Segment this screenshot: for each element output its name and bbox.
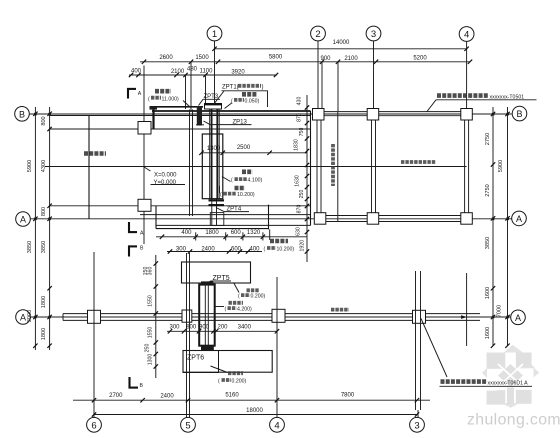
- svg-text:630: 630: [296, 227, 302, 236]
- svg-text:1630: 1630: [295, 175, 301, 187]
- label pile1 elevation: [225, 94, 260, 108]
- svg-text:3850: 3850: [485, 237, 491, 249]
- svg-text:7000: 7000: [497, 305, 503, 317]
- svg-text:5800: 5800: [269, 55, 283, 61]
- svg-text:750: 750: [299, 128, 305, 137]
- axis line B horizontal: [29, 113, 511, 115]
- svg-text:1600: 1600: [485, 327, 491, 339]
- annotation bottom right: [421, 319, 532, 387]
- right outer dim labels 5900 7000: [497, 160, 505, 317]
- label pile7 elevation: [216, 303, 252, 313]
- svg-text:600: 600: [231, 246, 242, 252]
- axis circle 3 top: [366, 26, 381, 110]
- svg-text:250: 250: [299, 190, 305, 199]
- lower-left dim chain: [154, 255, 158, 378]
- svg-text:1600: 1600: [485, 287, 491, 299]
- pile shaft upper: [210, 109, 220, 225]
- svg-text:4.200): 4.200): [237, 307, 252, 313]
- upper wing beam line y205.8: [50, 205, 311, 207]
- svg-text:(: (: [218, 379, 220, 385]
- axis circle 2 top: [311, 26, 326, 110]
- top edge step: [152, 106, 154, 129]
- pile cap top ZPT1: [204, 104, 222, 110]
- svg-text:5900: 5900: [498, 160, 504, 172]
- svg-text:1: 1: [212, 29, 217, 40]
- label ZPT4: [216, 207, 249, 213]
- svg-text:5: 5: [185, 420, 190, 431]
- axis line A' horizontal: [30, 316, 510, 318]
- ZPT4 footing bottom edge: [156, 228, 269, 230]
- seam line x340: [337, 112, 339, 222]
- svg-text:400: 400: [181, 230, 192, 236]
- svg-text:3: 3: [414, 420, 419, 431]
- axis 2 wing edge double: [317, 109, 321, 222]
- label X=0.000 Y=0.000: [144, 167, 185, 186]
- svg-text:2100: 2100: [344, 56, 358, 62]
- column squares right wing bottom row: [314, 213, 472, 225]
- svg-text:1550: 1550: [148, 327, 154, 339]
- axis circle A' right: [511, 310, 526, 325]
- svg-text:360: 360: [148, 267, 154, 276]
- svg-text:(: (: [231, 178, 233, 184]
- svg-text:870: 870: [297, 113, 303, 122]
- svg-text:A: A: [20, 215, 26, 225]
- svg-text:1320: 1320: [247, 230, 261, 236]
- beam label text: [331, 308, 349, 312]
- svg-text:2700: 2700: [109, 393, 123, 399]
- dim row lower wing 300 800 900 200 3400: [167, 324, 279, 333]
- upper wing bottom edge y222.3: [156, 224, 311, 226]
- label pile5 elevation: [264, 241, 295, 253]
- svg-text:2100: 2100: [171, 69, 185, 75]
- column squares A' beam: [88, 309, 426, 323]
- main axis P line: [45, 166, 467, 168]
- column square lower left wing: [138, 199, 151, 211]
- svg-text:zhulong.com: zhulong.com: [467, 412, 560, 429]
- axis 3 wing double: [372, 120, 376, 213]
- left dimension chain lines: [33, 107, 52, 350]
- axis 5 vertical double: [187, 253, 190, 417]
- svg-text:3000: 3000: [27, 310, 33, 322]
- svg-text:1300: 1300: [207, 146, 221, 152]
- axis circle B right: [512, 106, 527, 121]
- svg-text:5200: 5200: [413, 56, 427, 62]
- section mark B bottom L: [129, 377, 144, 389]
- svg-text:4: 4: [464, 30, 469, 41]
- ZPT3 pile bar: [196, 106, 204, 126]
- svg-text:400: 400: [249, 246, 260, 252]
- label ZPT1: [215, 85, 269, 108]
- svg-text:1800: 1800: [41, 296, 47, 308]
- dim row2 between wings 300 2400 600 400: [167, 246, 262, 253]
- column square upper left wing: [138, 122, 151, 135]
- section mark A top: [127, 88, 142, 99]
- svg-text:2600: 2600: [159, 55, 173, 61]
- axis circle 5 bottom: [181, 417, 196, 432]
- svg-text:900: 900: [199, 324, 210, 330]
- upper wing beam line y129: [50, 128, 311, 130]
- thick bar top left: [150, 106, 158, 110]
- svg-text:(: (: [225, 307, 227, 313]
- axis 4b vertical: [276, 277, 278, 417]
- svg-text:0.200): 0.200): [251, 294, 266, 300]
- upper wing top edge: [152, 110, 311, 112]
- svg-text:2: 2: [315, 29, 320, 40]
- svg-text:430: 430: [297, 97, 303, 106]
- inner double line x189.5: [190, 110, 193, 217]
- axis 3b vertical double: [416, 271, 421, 417]
- axis 4 wing double: [465, 120, 469, 213]
- svg-text:2500: 2500: [237, 145, 251, 151]
- svg-text:4: 4: [274, 420, 279, 431]
- svg-text:1300: 1300: [148, 354, 154, 366]
- label ZPT6: [183, 351, 219, 373]
- label pile3 elevation: [222, 172, 262, 184]
- svg-text:1920: 1920: [300, 240, 306, 252]
- axis circle 4 bottom: [270, 417, 285, 432]
- axis circle A right: [512, 211, 527, 226]
- svg-text:2750: 2750: [485, 184, 491, 196]
- upper wing beam line y215.4: [140, 214, 311, 216]
- svg-text:480: 480: [187, 66, 198, 72]
- svg-text:3400: 3400: [238, 324, 252, 330]
- bottom dim row 2700 2400 5160 7800: [73, 393, 430, 403]
- svg-text:2400: 2400: [160, 393, 174, 399]
- svg-text:(: (: [264, 247, 266, 253]
- axis circle A left: [16, 212, 31, 227]
- pile cap bottom: [209, 200, 225, 205]
- axis circle B left: [15, 107, 30, 122]
- axis circle A' left: [16, 310, 31, 325]
- svg-text:5160: 5160: [225, 393, 239, 399]
- svg-text:18000: 18000: [246, 408, 263, 414]
- section mark B top: [128, 246, 144, 257]
- right dimension chain lines: [491, 107, 510, 348]
- right inner dim labels 2750 2750 3850 1600 1600: [485, 133, 491, 339]
- dimension row 2600 1500 5800 900 2100 5200: [140, 55, 472, 112]
- svg-text:3920: 3920: [231, 70, 245, 76]
- upper wing right edge: [310, 111, 312, 225]
- axis circle 6 bottom: [87, 417, 102, 432]
- svg-text:1830: 1830: [294, 139, 300, 151]
- svg-text:1100: 1100: [200, 69, 214, 75]
- upper wing beam line y115.5: [50, 115, 311, 117]
- svg-text:ZPT1(: ZPT1(: [222, 85, 239, 91]
- mid dim chain x307: [305, 95, 309, 262]
- svg-text:B: B: [140, 383, 144, 389]
- seam horizontal text: [401, 160, 436, 164]
- label ZPT3: [199, 94, 221, 106]
- svg-text:A: A: [20, 313, 26, 323]
- svg-text:10.200): 10.200): [237, 192, 255, 198]
- svg-text:3850: 3850: [41, 241, 47, 253]
- label ZPT5: [205, 275, 232, 285]
- svg-text:1500: 1500: [195, 55, 209, 61]
- svg-text:4300: 4300: [41, 160, 47, 172]
- svg-text:1550: 1550: [148, 295, 154, 307]
- label zhuxian P-A: [84, 151, 106, 156]
- label pile6 elevation: [234, 283, 266, 300]
- svg-text:B: B: [516, 109, 522, 119]
- svg-text:2750: 2750: [485, 133, 491, 145]
- svg-text:870: 870: [297, 205, 303, 214]
- axis 6 vertical: [93, 252, 95, 417]
- mid chain labels: [294, 97, 306, 252]
- A' beam double lines: [63, 314, 480, 321]
- label pile2 elevation: [148, 91, 190, 107]
- svg-text:A: A: [515, 313, 521, 323]
- watermark logo diamond: [479, 344, 541, 410]
- bottom dim 18000: [92, 408, 419, 417]
- axis circle 4 top: [459, 27, 474, 110]
- svg-text:6: 6: [91, 420, 96, 431]
- section mark A bottom L: [128, 222, 144, 237]
- dim 1300 2500 inside wing: [199, 145, 307, 155]
- svg-text:0.200): 0.200): [232, 379, 247, 385]
- pile footing tall rect: [202, 134, 223, 199]
- column squares right wing top row: [313, 109, 473, 121]
- svg-text:7800: 7800: [341, 393, 355, 399]
- svg-text:xxxxxxx-T06D1 A: xxxxxxx-T06D1 A: [488, 380, 529, 386]
- svg-text:10.200): 10.200): [277, 247, 295, 253]
- svg-text:3: 3: [371, 29, 376, 40]
- svg-text:X=0.000: X=0.000: [154, 172, 177, 178]
- label pile4 elevation: [220, 186, 255, 198]
- right wing top beam double: [318, 112, 467, 116]
- svg-text:800: 800: [186, 324, 197, 330]
- axis 4 lower extension: [466, 273, 468, 346]
- annotation top right: [427, 94, 537, 111]
- lower pile bar: [199, 281, 215, 350]
- svg-text:400: 400: [131, 69, 142, 75]
- dimension row 400 2100 480 1100 3920: [129, 66, 278, 109]
- svg-text:): ): [262, 85, 264, 91]
- svg-text:800: 800: [41, 207, 47, 216]
- svg-text:0.050): 0.050): [245, 99, 260, 105]
- ZPT4 footing left edge: [155, 206, 157, 229]
- node dots at chain crossings: [34, 113, 509, 319]
- svg-text:300: 300: [176, 246, 187, 252]
- svg-text:B: B: [19, 109, 25, 119]
- svg-text:14000: 14000: [333, 40, 350, 46]
- svg-text:3850: 3850: [27, 241, 33, 253]
- svg-text:300: 300: [169, 324, 180, 330]
- dim row1 between wings 400 1800 600 1320: [156, 229, 307, 240]
- svg-text:900: 900: [320, 56, 331, 62]
- lower wing rect C: [183, 351, 272, 373]
- ZPT4 footing right edge: [268, 205, 270, 230]
- left outer dim labels 5900 3850 3000: [27, 160, 33, 322]
- svg-text:2400: 2400: [201, 246, 215, 252]
- svg-text:600: 600: [231, 230, 242, 236]
- left inner dim labels 800 4300 800 3850 1800 1800: [41, 116, 47, 340]
- svg-text:5900: 5900: [27, 160, 33, 172]
- axis circle 1 top: [207, 26, 222, 103]
- label ZP13: [204, 119, 252, 125]
- svg-text:B: B: [140, 246, 144, 252]
- svg-text:200: 200: [217, 324, 228, 330]
- label pile8 elevation: [211, 366, 247, 385]
- column square on A beam at pile: [210, 213, 224, 226]
- svg-text:(: (: [238, 294, 240, 300]
- axis circle 3 bottom: [410, 417, 425, 432]
- seam vertical text: [331, 144, 335, 186]
- svg-text:1800: 1800: [205, 230, 219, 236]
- column axis line x144: [143, 66, 145, 245]
- upper wing left edge: [88, 116, 90, 219]
- svg-text:800: 800: [41, 116, 47, 125]
- svg-text:4.100): 4.100): [248, 178, 263, 184]
- dimension 14000: [212, 40, 469, 51]
- svg-text:11.000): 11.000): [162, 96, 179, 102]
- right wing bottom beam double: [318, 216, 467, 222]
- svg-text:A: A: [140, 231, 144, 237]
- svg-text:1800: 1800: [41, 328, 47, 340]
- svg-text:A: A: [138, 91, 142, 97]
- svg-text:(: (: [148, 96, 150, 102]
- svg-text:A: A: [516, 214, 522, 224]
- lower wing rect A: [182, 262, 251, 283]
- svg-text:250: 250: [145, 344, 151, 353]
- axis line A horizontal: [30, 218, 511, 220]
- svg-text:(: (: [220, 192, 222, 198]
- lower-left chain labels: [143, 267, 154, 366]
